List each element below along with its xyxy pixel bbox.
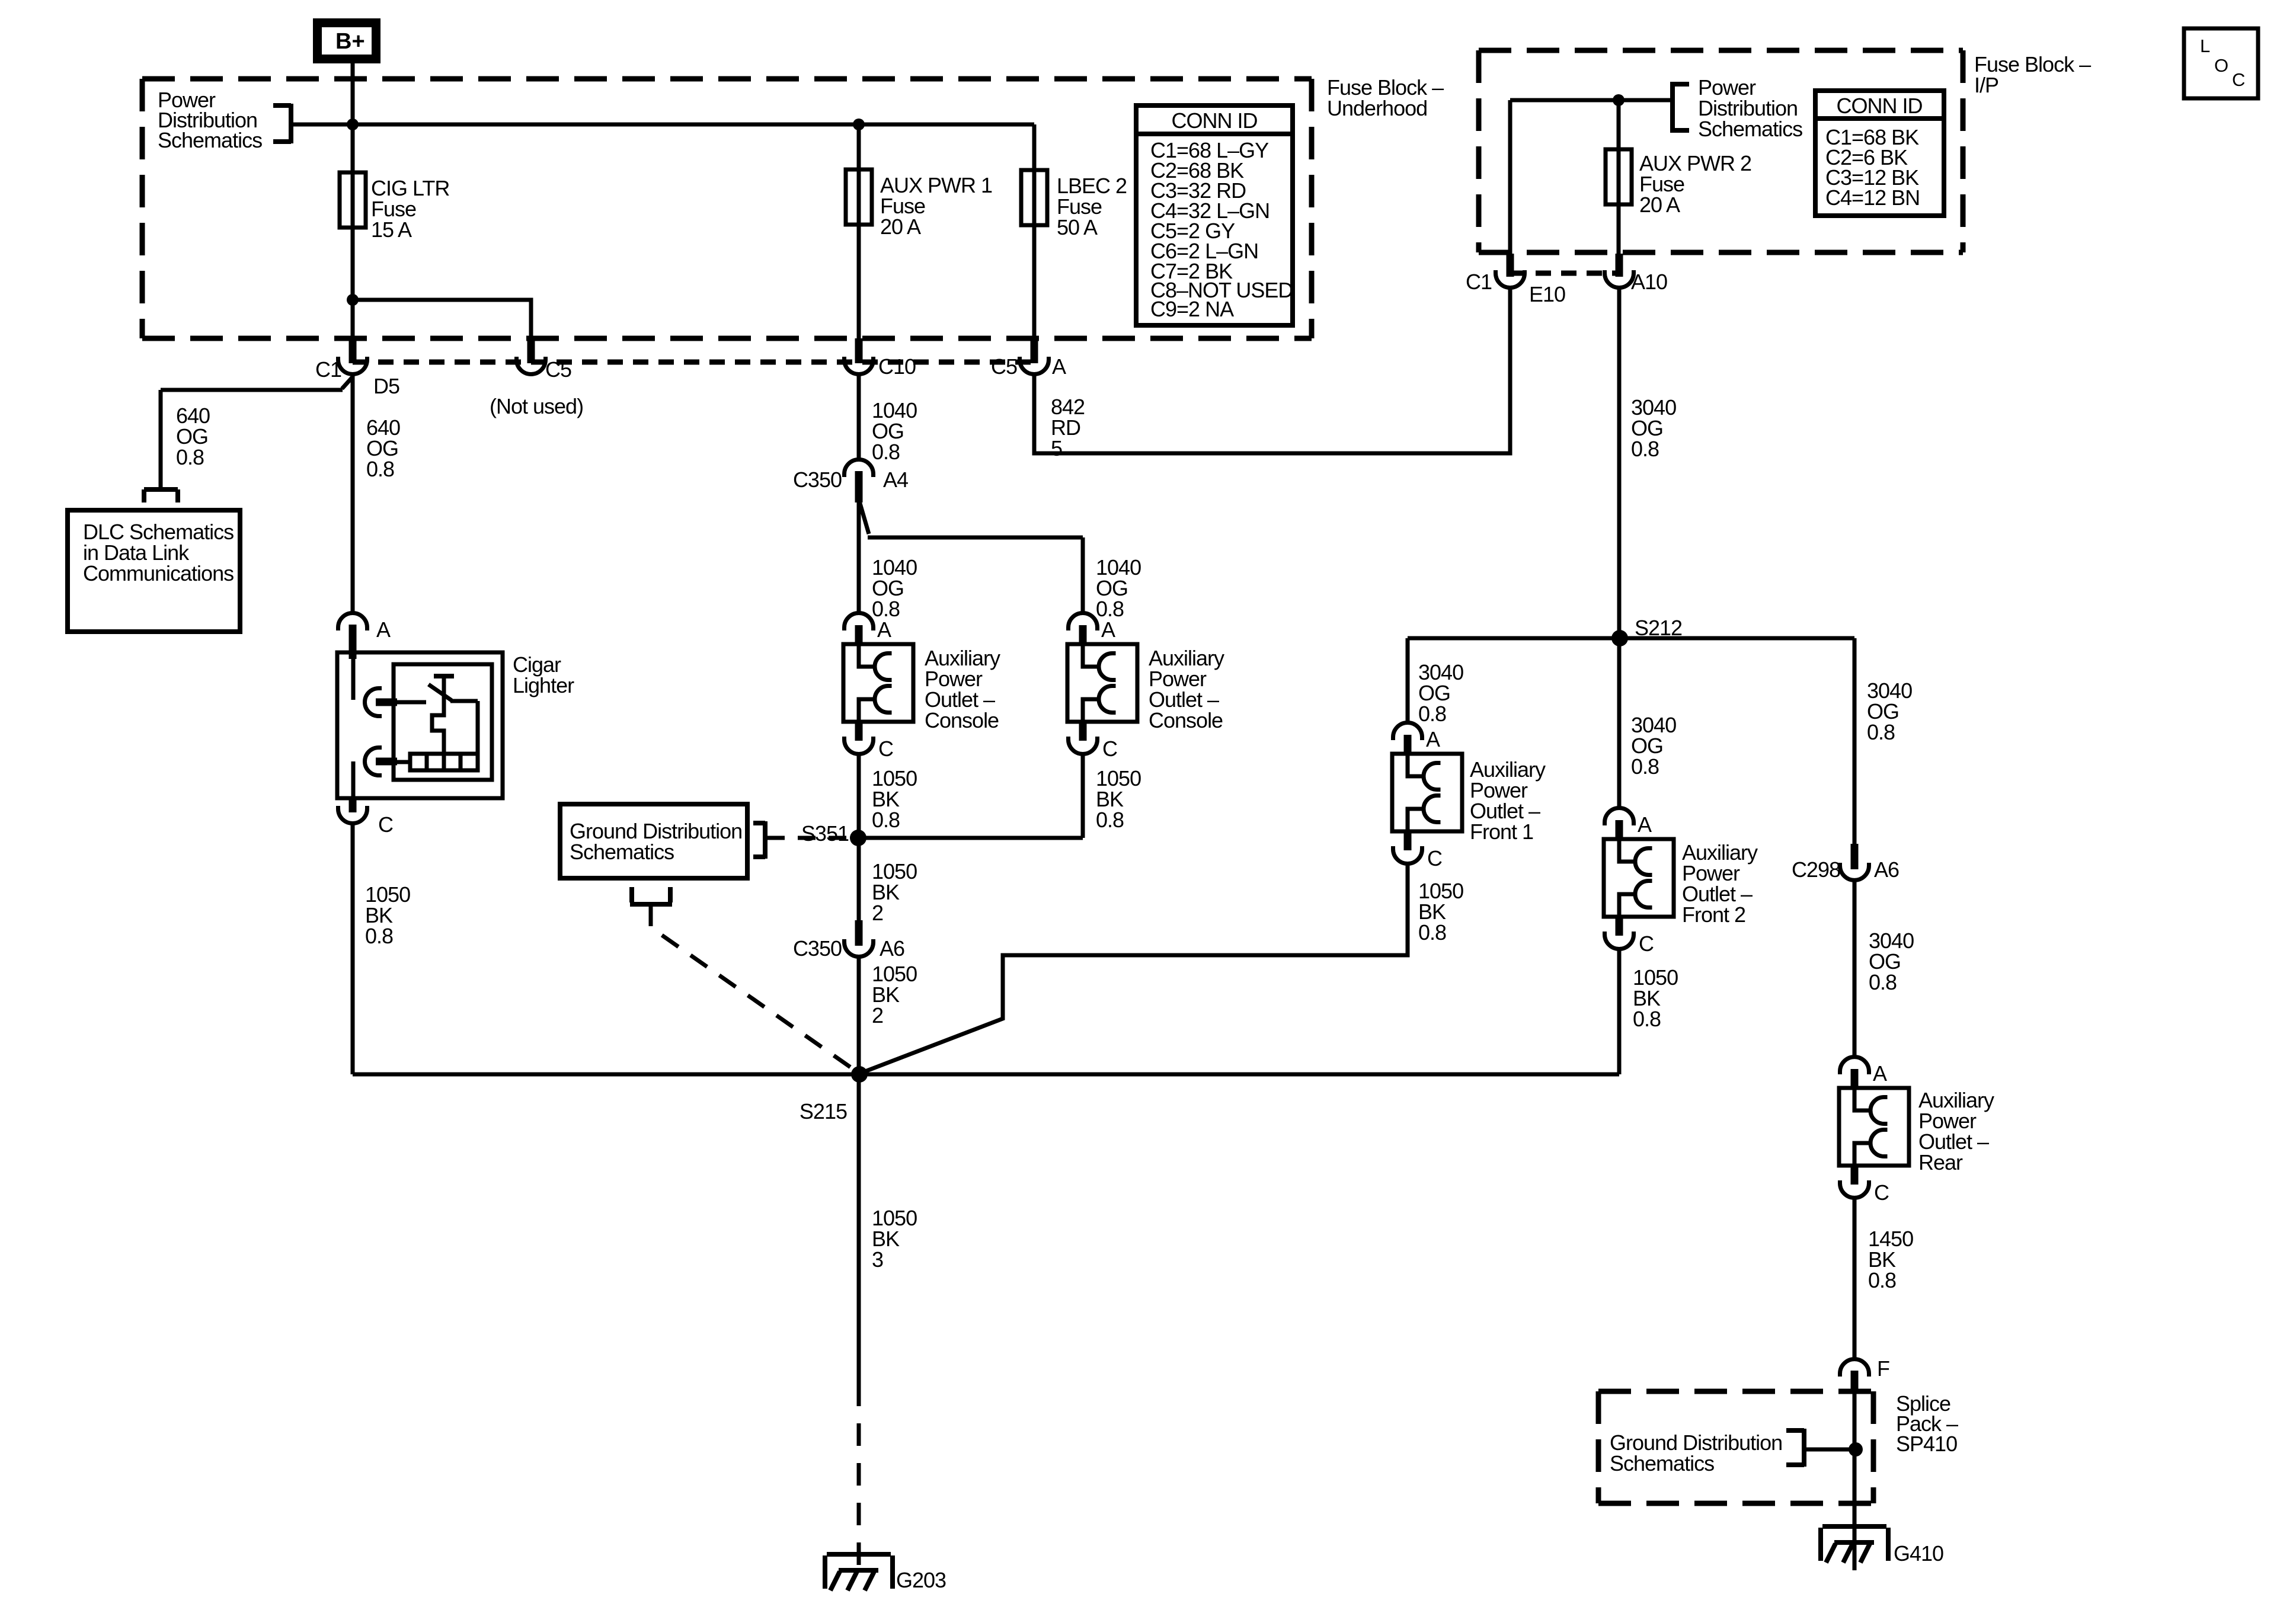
svg-text:5: 5	[1051, 436, 1062, 460]
svg-text:0.8: 0.8	[1869, 970, 1897, 994]
svg-text:C5: C5	[991, 354, 1017, 379]
svg-text:A6: A6	[1874, 857, 1899, 882]
svg-text:SP410: SP410	[1896, 1432, 1957, 1456]
svg-text:CONN ID: CONN ID	[1172, 108, 1258, 133]
svg-text:Console: Console	[925, 708, 999, 732]
svg-text:Communications: Communications	[83, 561, 234, 585]
svg-text:20 A: 20 A	[880, 215, 921, 239]
svg-text:0.8: 0.8	[1631, 754, 1659, 779]
svg-text:D5: D5	[373, 374, 399, 398]
svg-text:Console: Console	[1149, 708, 1223, 732]
svg-text:C: C	[1639, 932, 1654, 956]
svg-text:A: A	[1873, 1061, 1887, 1086]
svg-text:C: C	[1427, 846, 1442, 870]
svg-text:0.8: 0.8	[1633, 1007, 1661, 1031]
svg-text:A: A	[1101, 617, 1115, 642]
svg-text:C: C	[878, 737, 893, 761]
svg-text:0.8: 0.8	[1868, 1268, 1896, 1292]
svg-text:C9=2 NA: C9=2 NA	[1150, 297, 1234, 321]
svg-text:3: 3	[872, 1247, 883, 1272]
svg-text:L: L	[2200, 36, 2210, 56]
svg-text:A4: A4	[883, 468, 908, 492]
svg-text:2: 2	[872, 1003, 883, 1028]
svg-text:A: A	[1638, 812, 1652, 837]
svg-text:15 A: 15 A	[371, 217, 412, 242]
svg-text:Front 1: Front 1	[1470, 820, 1533, 844]
svg-text:A: A	[877, 617, 891, 642]
svg-text:2: 2	[872, 901, 883, 925]
svg-text:C5: C5	[545, 357, 571, 382]
svg-text:C: C	[1102, 737, 1117, 761]
svg-text:A: A	[376, 617, 391, 642]
svg-text:0.8: 0.8	[1096, 808, 1124, 832]
svg-text:E10: E10	[1529, 282, 1565, 306]
svg-text:CONN ID: CONN ID	[1837, 94, 1923, 118]
svg-text:C: C	[2232, 69, 2245, 90]
svg-text:A6: A6	[880, 936, 904, 961]
svg-text:G410: G410	[1894, 1541, 1943, 1566]
svg-text:Lighter: Lighter	[513, 673, 574, 697]
svg-text:0.8: 0.8	[1631, 437, 1659, 461]
svg-text:0.8: 0.8	[365, 924, 393, 948]
svg-text:A: A	[1426, 727, 1440, 751]
svg-text:Schematics: Schematics	[158, 128, 262, 152]
svg-text:0.8: 0.8	[176, 445, 204, 469]
svg-text:G203: G203	[896, 1568, 946, 1592]
svg-text:C350: C350	[793, 936, 842, 961]
svg-text:C4=12 BN: C4=12 BN	[1825, 185, 1920, 210]
svg-text:0.8: 0.8	[1418, 920, 1446, 945]
svg-text:O: O	[2214, 55, 2228, 76]
svg-text:I/P: I/P	[1974, 73, 1998, 97]
svg-text:Schematics: Schematics	[1698, 117, 1802, 141]
svg-text:50 A: 50 A	[1057, 215, 1098, 239]
svg-text:Schematics: Schematics	[570, 840, 674, 864]
svg-text:Underhood: Underhood	[1327, 96, 1427, 120]
svg-text:S351: S351	[801, 821, 849, 846]
svg-text:Schematics: Schematics	[1610, 1451, 1714, 1475]
svg-text:S215: S215	[800, 1099, 847, 1124]
svg-text:0.8: 0.8	[872, 808, 900, 832]
svg-text:C1: C1	[1466, 270, 1492, 294]
svg-text:C350: C350	[793, 468, 842, 492]
svg-text:C: C	[378, 812, 393, 837]
svg-text:C1: C1	[315, 357, 341, 382]
svg-text:A10: A10	[1631, 270, 1667, 294]
svg-text:A: A	[1052, 354, 1066, 379]
svg-text:0.8: 0.8	[1867, 720, 1895, 744]
svg-text:(Not used): (Not used)	[490, 394, 583, 418]
svg-text:C10: C10	[878, 354, 916, 379]
svg-text:Rear: Rear	[1918, 1150, 1963, 1174]
svg-text:20 A: 20 A	[1639, 193, 1680, 217]
svg-text:0.8: 0.8	[1418, 702, 1446, 726]
svg-text:Front 2: Front 2	[1682, 902, 1745, 927]
svg-text:C298: C298	[1792, 857, 1840, 882]
svg-text:C: C	[1874, 1180, 1889, 1205]
svg-text:B+: B+	[335, 29, 365, 54]
svg-text:F: F	[1877, 1356, 1889, 1381]
svg-text:0.8: 0.8	[872, 440, 900, 464]
svg-text:0.8: 0.8	[366, 457, 394, 481]
